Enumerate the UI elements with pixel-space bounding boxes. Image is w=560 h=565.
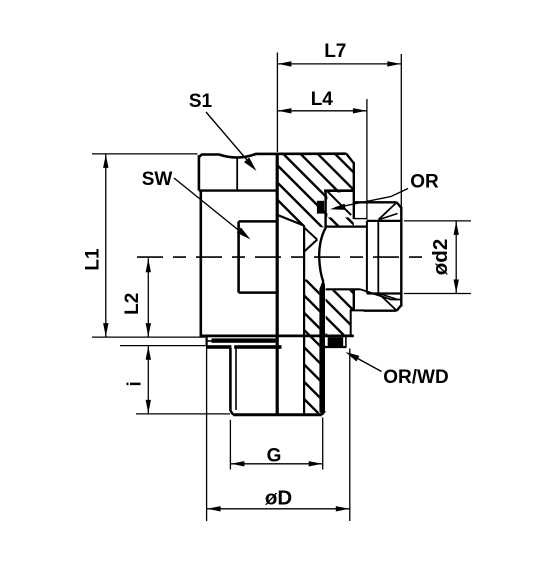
- seal washer OR/WD left portion: [207, 336, 282, 349]
- label OR/WD with leader: [346, 352, 449, 388]
- svg-text:OR: OR: [410, 172, 439, 193]
- svg-text:L7: L7: [324, 41, 346, 62]
- threaded stud outline: [230, 348, 325, 415]
- label SW with leader: [142, 169, 251, 240]
- vertical section axis line: [276, 153, 279, 416]
- port bore lower wall: [326, 288, 361, 290]
- bore cone line: [278, 215, 304, 225]
- svg-text:L2: L2: [122, 293, 143, 315]
- port counterbore face line right: [324, 189, 355, 192]
- dimension oD: [207, 346, 350, 521]
- SW hex facet rectangle: [239, 221, 278, 292]
- O-ring OR section square: [317, 191, 326, 228]
- svg-text:S1: S1: [189, 91, 213, 112]
- centerline horizontal dash-dot: [137, 256, 430, 258]
- svg-text:OR/WD: OR/WD: [383, 367, 448, 388]
- port bore upper wall: [326, 226, 367, 228]
- dimension L4: [277, 89, 367, 220]
- dimension L2: [122, 258, 151, 337]
- nut chamfer facet lines top: [379, 203, 398, 220]
- label S1 with leader: [189, 91, 257, 171]
- bore wall line: [303, 225, 305, 414]
- hatch field F1 body upper section: [277, 153, 353, 228]
- dimension G: [230, 418, 322, 470]
- stud bottom-right chamfer hatch: [320, 412, 323, 415]
- nut chamfer facet lines bottom: [379, 293, 398, 310]
- dimension L1: [83, 154, 206, 337]
- dimension L7: [277, 41, 401, 206]
- stud thread minor line: [235, 348, 237, 410]
- body lower right step: [351, 310, 354, 335]
- svg-text:L1: L1: [83, 248, 104, 271]
- side port drill cone tip lines: [304, 228, 317, 252]
- head / body shoulder line left: [199, 189, 278, 191]
- body hex head S1 outline: [199, 154, 354, 191]
- body right edge upper: [353, 162, 355, 219]
- seal washer OR/WD right black square: [325, 335, 347, 347]
- body bottom edge: [201, 334, 354, 337]
- port step line: [354, 218, 367, 220]
- hatch field F3 body lower-right section: [326, 290, 354, 334]
- label OR with leader: [330, 172, 439, 210]
- svg-text:L4: L4: [311, 89, 334, 110]
- dimension od2: [404, 221, 471, 294]
- body left edge: [200, 191, 203, 337]
- svg-text:øD: øD: [265, 487, 292, 510]
- tube stub cylinder outlines: [367, 221, 401, 294]
- hatch field F2 stud wall section: [305, 280, 320, 414]
- single hatch stroke in port white zone: [328, 192, 352, 216]
- port bore exit cone: [360, 289, 400, 299]
- svg-text:ød2: ød2: [429, 239, 452, 275]
- port thread heavy bar: [319, 280, 325, 414]
- svg-text:SW: SW: [142, 169, 173, 190]
- seat nose curve: [319, 228, 326, 283]
- tube nut outline: [354, 202, 402, 311]
- head hex facet line: [236, 157, 238, 190]
- dimension i: [120, 346, 230, 414]
- svg-text:G: G: [267, 446, 282, 467]
- svg-text:i: i: [124, 381, 145, 386]
- body right edge lower: [353, 290, 355, 311]
